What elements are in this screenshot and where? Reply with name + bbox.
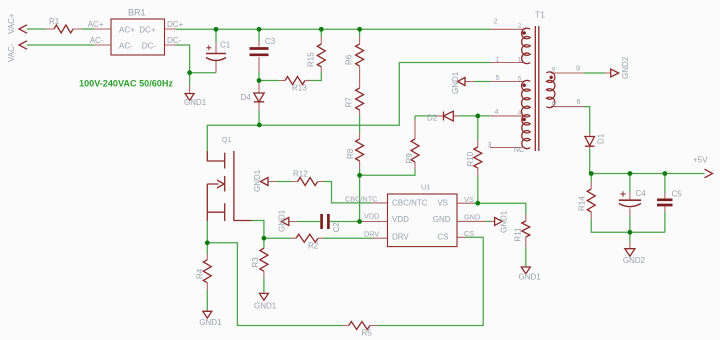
svg-text:VAC-: VAC- xyxy=(7,43,16,62)
svg-text:R12: R12 xyxy=(293,169,308,178)
svg-text:AC+: AC+ xyxy=(88,20,104,29)
svg-text:CS: CS xyxy=(437,232,448,241)
svg-text:R3: R3 xyxy=(251,257,260,268)
svg-text:R4: R4 xyxy=(195,268,204,279)
svg-text:D4: D4 xyxy=(241,93,252,102)
svg-text:Q1: Q1 xyxy=(222,137,231,144)
svg-text:DC+: DC+ xyxy=(167,20,184,29)
svg-text:R7: R7 xyxy=(345,97,354,108)
svg-text:VDD: VDD xyxy=(364,212,379,221)
svg-text:R2: R2 xyxy=(308,241,319,250)
svg-text:GND2: GND2 xyxy=(623,256,646,265)
svg-text:GND: GND xyxy=(433,215,451,224)
svg-text:GND1: GND1 xyxy=(278,209,287,232)
svg-text:R11: R11 xyxy=(514,227,523,242)
svg-text:R6: R6 xyxy=(345,54,354,65)
svg-text:AC+: AC+ xyxy=(119,26,135,35)
svg-text:4: 4 xyxy=(494,107,498,116)
svg-text:C2: C2 xyxy=(332,222,341,233)
svg-text:C1: C1 xyxy=(220,40,231,49)
svg-text:D2: D2 xyxy=(427,113,438,122)
svg-text:GND1: GND1 xyxy=(519,273,542,282)
svg-text:DRV: DRV xyxy=(364,229,379,238)
svg-text:R9: R9 xyxy=(405,153,414,164)
svg-text:AC-: AC- xyxy=(119,42,133,51)
svg-text:CBC/NTC: CBC/NTC xyxy=(345,195,377,204)
svg-text:3: 3 xyxy=(487,140,491,149)
svg-text:R15: R15 xyxy=(307,52,316,67)
svg-text:R14: R14 xyxy=(578,196,587,211)
svg-text:GND1: GND1 xyxy=(499,210,508,233)
svg-text:DC+: DC+ xyxy=(139,26,156,35)
svg-text:C5: C5 xyxy=(672,190,683,199)
svg-text:GND: GND xyxy=(464,212,480,221)
svg-text:U1: U1 xyxy=(421,183,431,192)
svg-text:R13: R13 xyxy=(292,83,307,92)
svg-text:VS: VS xyxy=(464,195,474,204)
svg-text:GND1: GND1 xyxy=(254,302,277,311)
svg-text:9: 9 xyxy=(576,64,580,73)
svg-text:CS: CS xyxy=(464,229,474,238)
svg-text:CBC/NTC: CBC/NTC xyxy=(392,198,428,207)
svg-text:GND1: GND1 xyxy=(451,71,460,94)
svg-text:DC-: DC- xyxy=(167,36,182,45)
svg-text:VS: VS xyxy=(437,198,448,207)
svg-text:R8: R8 xyxy=(346,148,355,159)
svg-text:100V-240VAC 50/60Hz: 100V-240VAC 50/60Hz xyxy=(79,79,173,90)
svg-text:C3: C3 xyxy=(265,37,276,46)
svg-text:DC-: DC- xyxy=(142,42,157,51)
svg-text:R5: R5 xyxy=(362,329,373,338)
svg-text:GND1: GND1 xyxy=(199,318,222,327)
svg-text:6: 6 xyxy=(576,97,580,106)
svg-text:VDD: VDD xyxy=(392,215,409,224)
svg-text:2: 2 xyxy=(493,17,497,26)
svg-text:NC: NC xyxy=(514,145,525,154)
svg-text:5: 5 xyxy=(495,73,499,82)
svg-text:VAC+: VAC+ xyxy=(7,13,16,34)
svg-text:GND2: GND2 xyxy=(621,56,630,79)
svg-text:C4: C4 xyxy=(636,189,647,198)
svg-text:AC-: AC- xyxy=(90,36,104,45)
svg-text:GND1: GND1 xyxy=(184,98,207,107)
svg-text:1: 1 xyxy=(495,55,499,64)
svg-text:DRV: DRV xyxy=(392,232,409,241)
svg-text:T1: T1 xyxy=(535,10,545,20)
svg-text:D1: D1 xyxy=(596,133,605,144)
svg-text:GND1: GND1 xyxy=(253,169,262,192)
svg-text:BR1: BR1 xyxy=(128,8,146,18)
svg-text:R1: R1 xyxy=(49,17,60,26)
svg-text:R10: R10 xyxy=(466,151,475,166)
svg-text:+5V: +5V xyxy=(693,156,708,165)
